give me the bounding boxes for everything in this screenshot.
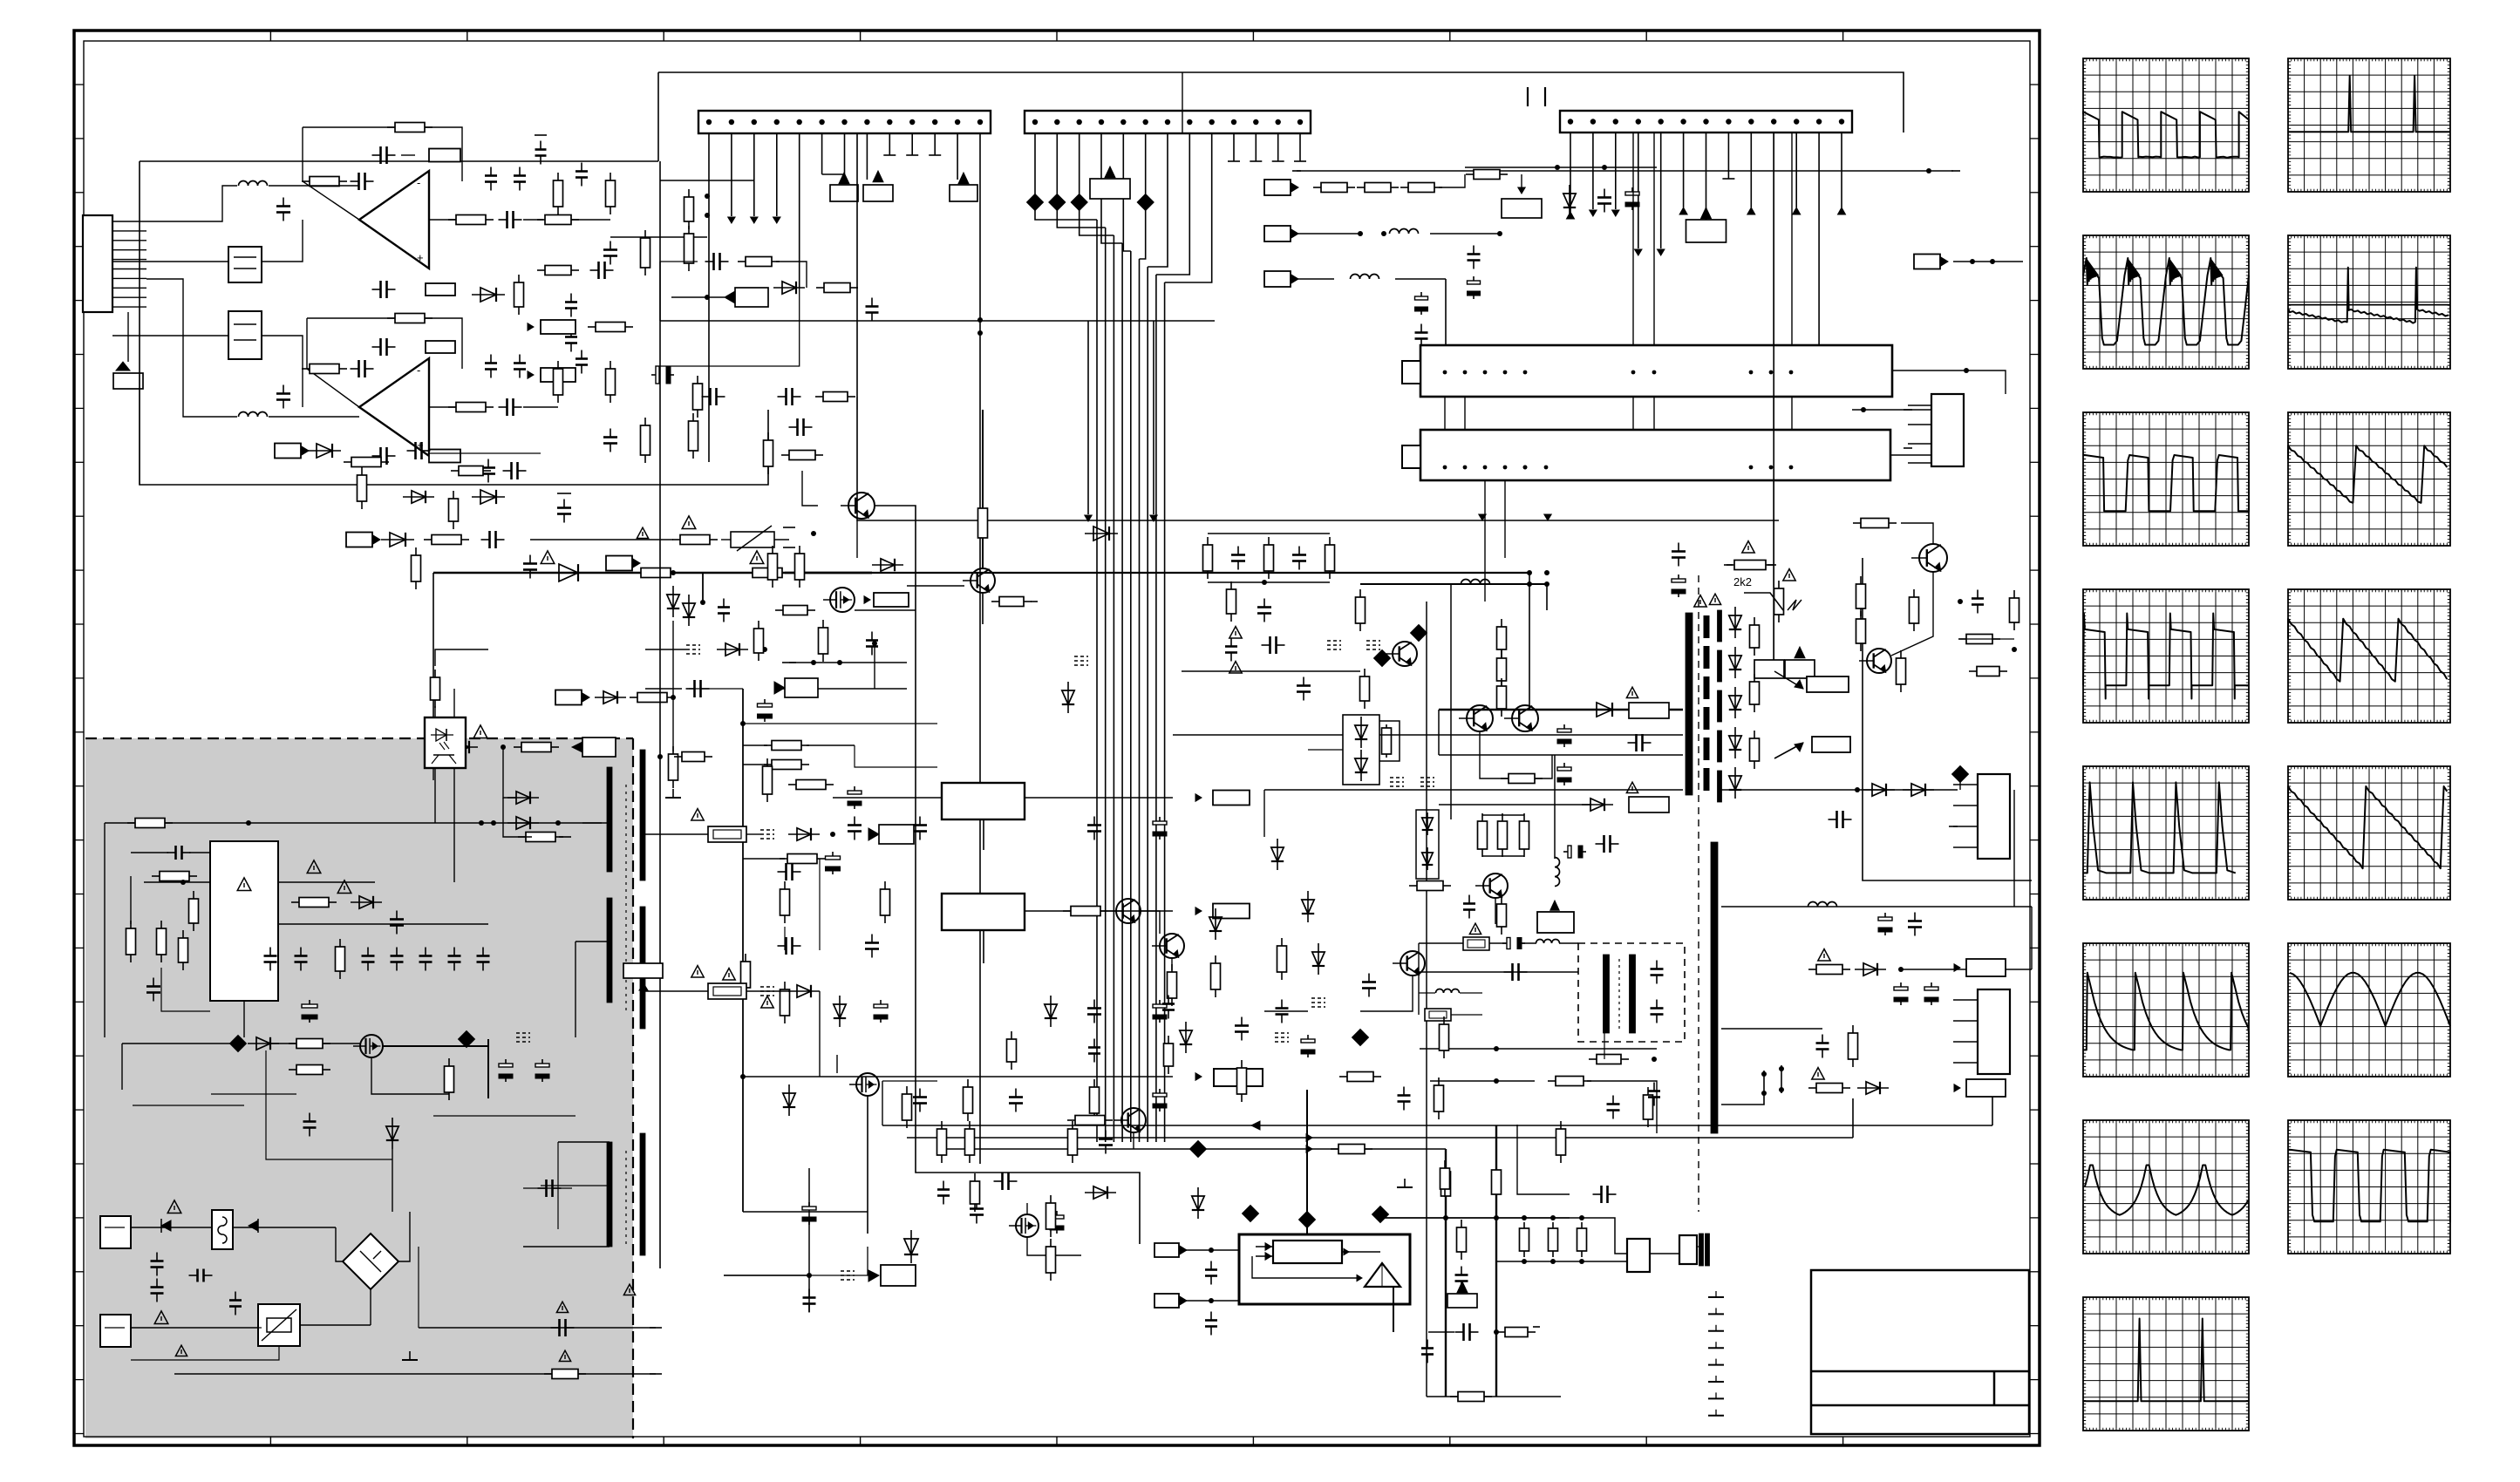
arrow A17 — [1306, 1134, 1312, 1141]
resistor R67 — [1445, 1164, 1447, 1172]
wire W89 — [645, 990, 708, 992]
capacitor C12 — [610, 429, 611, 438]
junction J74 — [1579, 1259, 1584, 1264]
4pin connector C — [1978, 989, 2010, 1074]
diode D39 — [773, 287, 805, 289]
resistor R113 — [1339, 1076, 1347, 1078]
arrow A34 — [1954, 1084, 1960, 1091]
resistor R28 — [767, 432, 769, 440]
resistor R5 — [302, 368, 310, 370]
wire W10 — [571, 219, 610, 221]
net marker N12 — [1074, 656, 1088, 657]
wire W27 — [503, 747, 516, 798]
second rail — [1360, 583, 1547, 585]
op-amp U8 — [1365, 1263, 1400, 1287]
junction J82 — [1463, 370, 1468, 375]
supply box 3 — [1090, 179, 1130, 199]
wire W51 — [392, 1149, 393, 1212]
capacitor C111 — [490, 355, 492, 364]
warning triangle T10 — [175, 1345, 187, 1356]
diode D12 — [248, 1043, 279, 1044]
wire CN1 pin6 — [821, 133, 823, 174]
wire W155 — [689, 688, 743, 690]
wire W156 — [776, 262, 807, 288]
wire W139 — [1901, 969, 2032, 970]
resistor R37 — [289, 1043, 296, 1044]
resistor R110 — [1443, 1016, 1445, 1024]
wire CN2 pin7 to bus — [1148, 133, 1168, 267]
border frame inner — [84, 41, 2030, 1437]
resistor R60 — [1050, 1195, 1052, 1203]
capacitor C85 — [1468, 895, 1470, 904]
resistor R9 — [644, 230, 646, 238]
wire W47 — [487, 1039, 489, 1098]
warning triangle T1 — [682, 516, 696, 529]
wire CN2 pin10 — [1233, 133, 1235, 161]
resistor R35 — [291, 901, 299, 903]
inductor L15 — [1461, 580, 1490, 585]
arrow A11 — [1658, 249, 1665, 255]
screen arrow — [1774, 743, 1803, 758]
junction J85 — [1523, 370, 1528, 375]
inductor L5 — [239, 181, 268, 187]
resistor R105 — [1808, 1087, 1816, 1089]
arrow A30 — [1518, 187, 1525, 194]
resistor R61 — [1050, 1239, 1052, 1247]
warning triangle T21 — [1709, 594, 1720, 604]
wire W143 — [1182, 72, 1183, 133]
wire W105 — [1439, 174, 1465, 187]
resistor R49 — [784, 881, 786, 889]
resistor R131 — [1589, 1058, 1597, 1060]
resistor R55 — [1093, 1079, 1095, 1087]
oscillogram grid L5 — [2083, 766, 2249, 900]
board connector bar 2 — [1420, 430, 1890, 480]
resistor R76 — [1313, 187, 1321, 188]
pin wire — [1953, 1020, 1978, 1022]
junction J59 — [872, 641, 877, 646]
net marker N10 — [1275, 1032, 1289, 1034]
resistor R39 — [448, 1058, 450, 1066]
gray exit wire 1 — [174, 1373, 656, 1375]
resistor R46 — [764, 764, 772, 765]
supply box 4 — [1686, 220, 1727, 242]
wire CN3 pin7 — [1706, 133, 1707, 220]
terminal TB9 — [1292, 170, 1301, 172]
net marker N9 — [1366, 640, 1380, 642]
resistor R43 — [822, 620, 824, 628]
capacitor C38 — [156, 1279, 158, 1288]
terminal TB20 — [1724, 564, 1733, 566]
resistor R64 — [1067, 1119, 1075, 1121]
wire — [1554, 755, 1556, 859]
diode D28 — [1427, 812, 1428, 835]
diode pair box — [1343, 715, 1379, 785]
transformer winding TW6 — [640, 1133, 645, 1255]
terminal TB24 — [650, 1373, 662, 1375]
B+ rail extension — [872, 572, 1529, 574]
capacitor C13 — [590, 269, 599, 271]
arrow up — [1793, 207, 1801, 214]
connector plug IN1 — [1264, 180, 1291, 195]
ferrite bead L16 — [1411, 625, 1427, 642]
transformer winding TW7 — [1604, 955, 1610, 1033]
connector pin wire — [112, 296, 146, 298]
wire W71 — [802, 471, 818, 506]
warning triangle T29 — [623, 1284, 635, 1295]
EHT diode 5 — [1734, 767, 1736, 799]
wire W52 — [266, 1050, 392, 1159]
junction J104 — [1990, 259, 1995, 264]
pin wire — [1908, 404, 1931, 406]
wire W79 — [807, 744, 855, 746]
resistor R108 — [1329, 537, 1331, 545]
wire W77 — [743, 744, 767, 746]
junction J35 — [1748, 119, 1754, 124]
capacitor C71 — [1455, 1331, 1464, 1333]
resistor R22 — [745, 572, 753, 574]
resistor R13 — [537, 269, 545, 271]
wire W1 — [303, 126, 395, 128]
resistor R116 — [1560, 1121, 1562, 1129]
junction J1 — [706, 119, 712, 125]
warning triangle T27 — [559, 1350, 570, 1361]
wire W18 — [269, 416, 359, 418]
pin wire — [1953, 1041, 1978, 1043]
wire W142 — [2031, 907, 2033, 969]
pin wire — [1953, 784, 1978, 785]
capacitor C69 — [1210, 1312, 1212, 1321]
junction J76 — [1555, 165, 1560, 170]
diode D18 — [788, 833, 820, 835]
cross wire 2 — [1182, 670, 1360, 672]
wire W20 — [721, 539, 731, 540]
capacitor C21 — [563, 500, 565, 508]
wire — [660, 180, 754, 181]
wire W104 — [1379, 1218, 1381, 1222]
fusible resistor — [708, 826, 746, 842]
junction J84 — [1503, 370, 1508, 375]
wire mid rail — [660, 320, 1215, 322]
wire W138 — [1866, 906, 2032, 908]
resistor R120 — [557, 173, 559, 180]
resistor R98 — [1409, 885, 1417, 887]
junction J72 — [1522, 1259, 1527, 1264]
junction J121 — [2012, 647, 2017, 652]
transistor Q13 — [1512, 705, 1538, 731]
diode D16 — [788, 1084, 790, 1116]
resistor R8 — [448, 406, 456, 408]
capacitor C3 — [283, 198, 284, 207]
flyback core dashes — [1704, 615, 1710, 793]
junction J40 — [705, 194, 710, 199]
junction J38 — [1816, 119, 1822, 124]
wire W8 — [429, 219, 456, 221]
capacitor C10 — [499, 406, 507, 408]
wire — [1153, 321, 1154, 514]
terminal TB16 — [782, 688, 796, 690]
warning triangle T4 — [473, 725, 487, 738]
connector plug IN2 — [1264, 226, 1291, 241]
resistor R84 — [1913, 589, 1915, 597]
arrow A15 — [1085, 515, 1092, 521]
capacitor C17 — [407, 450, 416, 452]
capacitor C116 — [723, 599, 725, 608]
bus line 5 — [1130, 251, 1132, 1142]
transistor Q6 — [1116, 899, 1141, 923]
wire W33 — [104, 823, 106, 1037]
wire CN3 pin4 — [1638, 133, 1639, 248]
connector pin wire — [112, 249, 146, 251]
capacitor C28 — [367, 948, 369, 956]
resistor R80 — [1727, 564, 1734, 566]
arrow A9 — [1612, 210, 1619, 216]
capacitor C83 — [1628, 742, 1637, 744]
wire W147 — [1360, 976, 1413, 1011]
transistor Q15 — [1400, 951, 1425, 976]
audio out wire — [429, 452, 541, 454]
wire W36 — [130, 876, 132, 924]
resistor R63 — [1171, 964, 1173, 972]
terminal TB5 — [1250, 160, 1262, 162]
capacitor C79 — [1678, 543, 1679, 552]
wire W63 — [576, 941, 610, 942]
wire CN2 pin8 to bus — [1156, 133, 1189, 275]
diode D44 — [1085, 1192, 1116, 1193]
diode D10 — [507, 822, 539, 824]
junction J43 — [977, 330, 983, 336]
diode D33 — [1857, 1087, 1889, 1089]
ferrite bead L12 — [1372, 1207, 1389, 1223]
wire W146 — [1308, 749, 1343, 751]
mosfet Q1 — [360, 1035, 383, 1057]
capacitor C27 — [300, 948, 302, 956]
resistor R56 — [906, 1086, 908, 1094]
wire W70 — [659, 262, 661, 321]
waveform trace L8 — [2083, 1319, 2249, 1402]
capacitor C63 — [994, 1180, 1003, 1182]
capacitor C57 — [778, 945, 787, 947]
terminal TB18 — [1904, 409, 1912, 411]
wire W135 — [1495, 898, 1496, 924]
capacitor C32 — [482, 948, 484, 956]
ferrite bead L9 — [1190, 1141, 1207, 1158]
wire CN1 pin3 — [753, 133, 755, 216]
wire W133 — [1482, 814, 1524, 816]
resistor R59 — [1072, 1121, 1073, 1129]
terminal TB13 — [783, 547, 795, 548]
transformer winding TW10 — [1706, 1234, 1710, 1266]
wire — [983, 930, 984, 963]
resistor R119 — [816, 287, 824, 289]
junction J86 — [1749, 370, 1754, 375]
resistor R83 — [1860, 611, 1862, 619]
connector plug P2 — [346, 533, 372, 547]
capacitor C117 — [871, 632, 873, 641]
diode D35 — [1360, 750, 1362, 781]
diode D22 — [1215, 908, 1216, 940]
resistor R95 — [1481, 813, 1483, 821]
arrow A22 — [1195, 794, 1202, 801]
wire W68 — [523, 1246, 610, 1247]
junction J107 — [1544, 581, 1549, 587]
cross wire 3 — [1264, 789, 1683, 791]
inductor L18 — [1536, 940, 1560, 944]
wire W152 — [1517, 1125, 1570, 1194]
oscillogram grid L2 — [2083, 235, 2249, 369]
wire W154 — [856, 520, 858, 558]
capacitor C15 — [570, 329, 572, 337]
diode D36 — [1307, 891, 1309, 922]
resistor R45 — [764, 744, 772, 746]
wire W159 — [855, 745, 937, 767]
wire W12 — [523, 406, 558, 408]
audio filter box 2 — [228, 311, 262, 359]
wire W16 — [146, 279, 237, 417]
wire — [1419, 992, 1435, 994]
title block vertical divider — [1993, 1371, 1996, 1405]
capacitor C37 — [156, 1253, 158, 1261]
junction J111 — [1855, 787, 1860, 792]
oscillogram grid R6 — [2288, 943, 2450, 1077]
wire — [1721, 1071, 1764, 1105]
bar2 notch — [1402, 445, 1420, 468]
wire — [982, 594, 984, 624]
arrow A3 — [773, 217, 781, 223]
wire W122 — [1791, 397, 1793, 430]
ferrite bead L2 — [1049, 194, 1066, 211]
junction J48 — [671, 695, 676, 700]
resistor R132 — [1011, 1031, 1012, 1039]
junction J83 — [1483, 370, 1488, 375]
capacitor C78 — [1420, 324, 1422, 333]
junction J15 — [1054, 119, 1059, 125]
wire W40 — [278, 923, 488, 925]
wire W29 — [453, 689, 455, 717]
wire — [1342, 1251, 1380, 1253]
junction J13 — [977, 119, 983, 125]
resistor R58 — [969, 1121, 971, 1129]
capacitor C7 — [372, 346, 381, 348]
capacitor C101 — [1307, 1035, 1309, 1043]
warning triangle T9 — [154, 1311, 168, 1324]
svg-text:2k2: 2k2 — [1733, 575, 1752, 588]
junction J17 — [1099, 119, 1104, 125]
resistor R72 — [1581, 1222, 1583, 1228]
wire W161 — [784, 927, 786, 950]
resistor R103 — [1808, 969, 1816, 970]
ground G3 — [1404, 1179, 1406, 1187]
warning triangle T19 — [1626, 782, 1638, 792]
wire W3 — [303, 127, 359, 220]
junction J57 — [811, 660, 816, 665]
capacitor C41 — [702, 396, 711, 398]
wire W149 — [1263, 790, 1265, 837]
EHT bolt — [1788, 600, 1801, 610]
junction J120 — [1652, 1057, 1657, 1062]
resistor R62 — [1063, 910, 1071, 912]
supply arrow A31 — [1795, 647, 1805, 658]
wire CN3 pin9 — [1750, 133, 1752, 207]
diode D7 — [595, 697, 626, 698]
transformer winding TW12 — [1718, 650, 1722, 682]
diode D24 — [1197, 1187, 1199, 1219]
resistor R32 — [160, 921, 162, 928]
capacitor C11 — [610, 241, 611, 250]
resistor R23 — [630, 697, 637, 698]
capacitor C23 — [167, 852, 176, 853]
long center drop — [916, 523, 1140, 1244]
flyback secondary winding — [1711, 842, 1718, 1133]
capacitor C105 — [1593, 1193, 1602, 1195]
wire W106 — [1465, 167, 1657, 168]
zener pair box — [1416, 810, 1439, 879]
resistor R65 — [1215, 955, 1216, 963]
resistor R7 — [537, 219, 545, 221]
diode D19 — [788, 990, 820, 992]
junction J97 — [1769, 466, 1774, 470]
junction J41 — [705, 213, 710, 218]
wire conn to box2 — [112, 335, 228, 337]
capacitor C47 — [880, 1000, 882, 1008]
resistor R79 — [1466, 173, 1474, 175]
capacitor C90 — [1884, 913, 1886, 921]
capacitor C115 — [503, 470, 512, 472]
connector pin wire — [112, 287, 146, 289]
capacitor C76 — [1473, 276, 1475, 284]
junction J53 — [555, 820, 561, 826]
ferrite bead L23 — [1352, 1030, 1369, 1046]
bus return line 1 — [882, 1125, 1992, 1126]
wire — [1496, 1261, 1627, 1262]
wire — [1438, 710, 1440, 755]
wire — [1546, 584, 1548, 610]
junction J96 — [1749, 466, 1754, 470]
wire W7 — [401, 154, 415, 156]
net marker N3 — [760, 829, 774, 831]
wire — [1256, 1255, 1273, 1257]
B+ rail wire — [433, 572, 872, 574]
gray exit wire 2 — [419, 1327, 656, 1329]
wire W42 — [271, 1043, 296, 1044]
emitter resistor pair box — [1351, 721, 1400, 761]
wire CN3 pin13 — [1841, 133, 1842, 207]
wire W4 — [307, 317, 395, 319]
wire CN2 pin2 to bus — [1057, 133, 1105, 228]
capacitor C43 — [854, 786, 855, 794]
supply arrow A4 — [839, 173, 849, 184]
diode D23 — [1185, 1022, 1187, 1053]
wire W92 — [867, 1096, 868, 1234]
op-amp U2 — [359, 358, 429, 456]
wire W43 — [323, 1043, 360, 1044]
wire W78 — [743, 764, 767, 765]
waveform trace R5 — [2288, 786, 2447, 868]
arrow A33 — [1954, 964, 1960, 971]
ferrite bead L3 — [1071, 194, 1087, 211]
junction J20 — [1165, 119, 1170, 125]
arrow box label — [623, 963, 663, 978]
capacitor C35 — [541, 1059, 543, 1067]
wire CN2 pin11 — [1255, 133, 1257, 161]
wire W150 — [1430, 1080, 1535, 1082]
capacitor C67 — [1241, 1017, 1243, 1026]
junction J11 — [932, 119, 937, 125]
EHT wire — [1744, 593, 1783, 610]
resistor R73 — [1497, 1331, 1505, 1333]
board connector bar 1 — [1420, 345, 1892, 397]
terminal TB25 — [650, 1327, 662, 1329]
